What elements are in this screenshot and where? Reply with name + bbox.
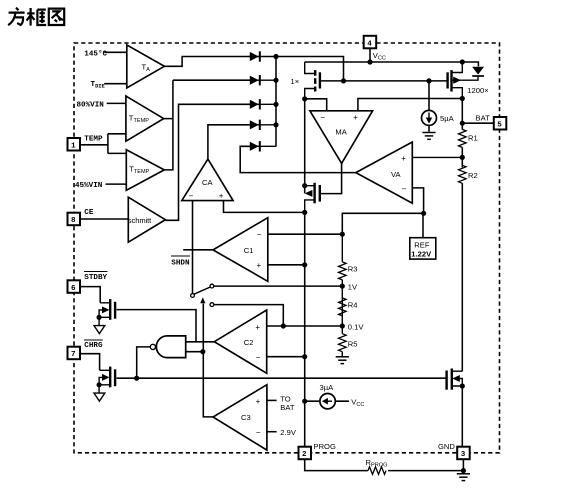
wire C3 + stub [267, 399, 277, 401]
comparator C1 [213, 218, 268, 282]
wire pin6 to M4 [80, 287, 100, 303]
wire MA+ to 1200x source [358, 99, 462, 111]
wire pin2 to RPROG [305, 460, 368, 471]
wire diode bus [276, 57, 344, 147]
ground at pin3 [457, 474, 470, 481]
schmitt trigger [128, 197, 166, 242]
svg-text:R2: R2 [468, 171, 478, 180]
wire CA- to switch [192, 201, 194, 294]
wire VA- to REF [342, 188, 423, 238]
resistor R2 [459, 165, 478, 183]
resistor R4 [339, 298, 358, 316]
svg-text:GND: GND [438, 442, 455, 451]
amplifier TTEMP1 [126, 96, 164, 141]
svg-text:−: − [257, 230, 262, 239]
resistor RPROG [366, 458, 388, 474]
transistor M3 (big NMOS) [447, 369, 463, 390]
diode D1 [249, 51, 276, 61]
svg-text:C3: C3 [241, 413, 251, 422]
wire C2 output to M4 gate [117, 310, 197, 342]
transistor Q1 1x [291, 62, 320, 99]
svg-text:5: 5 [497, 122, 502, 130]
wire switch upper contact to 1V tap [214, 285, 342, 287]
wire MA- from 1x source [305, 99, 327, 111]
svg-text:REF: REF [414, 240, 430, 249]
svg-text:1V: 1V [348, 282, 358, 291]
title 方框图 (drawn strokes) [8, 8, 64, 26]
svg-text:2.9V: 2.9V [280, 428, 297, 437]
wire NAND output to gate line [137, 347, 151, 378]
wire C1- to divider top [268, 233, 343, 235]
wire TA input TDIE [104, 83, 127, 85]
wire 3uA to PROG and VCC [305, 400, 349, 402]
NAND gate U1 [150, 336, 185, 358]
svg-text:CHRG: CHRG [84, 342, 103, 350]
wire VA output to D5 [240, 146, 356, 172]
transistor M5 (CHRG) [99, 367, 115, 393]
wire MA output to M2 gate [320, 163, 342, 193]
wire C3 - stub [267, 431, 277, 433]
label SHDN [171, 256, 190, 267]
svg-text:5µA: 5µA [440, 114, 455, 123]
svg-text:+: + [353, 113, 358, 122]
amplifier TA [127, 45, 165, 88]
comparator C3 [213, 385, 267, 450]
svg-text:4: 4 [367, 40, 372, 48]
divider connecting stubs [341, 234, 343, 356]
wire TTEMP2 input 45%VIN [106, 183, 127, 185]
svg-text:+: + [255, 323, 260, 332]
pin 7 [68, 340, 103, 359]
svg-text:+: + [257, 261, 262, 270]
svg-text:R1: R1 [468, 134, 478, 143]
svg-text:BAT: BAT [280, 403, 295, 412]
wire NAND lower input [186, 351, 203, 353]
svg-text:CE: CE [84, 209, 94, 217]
transistor M4 (STDBY) [99, 299, 115, 325]
svg-text:1.22V: 1.22V [411, 250, 432, 259]
resistor R3 [339, 262, 358, 280]
transistor Q2 1200x [448, 62, 489, 99]
wire M3 source to pin3 [461, 386, 463, 446]
diode D2 [249, 75, 276, 85]
wire M2 drain vertical [304, 99, 306, 194]
pin 6 [68, 272, 108, 293]
svg-text:STDBY: STDBY [84, 274, 107, 282]
transistor M2 [305, 183, 320, 213]
wire schmitt output to D3 [165, 104, 249, 220]
svg-text:−: − [402, 184, 407, 193]
dashed border [74, 43, 500, 453]
svg-text:7: 7 [71, 351, 76, 359]
ground under M5 [94, 393, 105, 401]
wire C2 output to NAND [186, 341, 215, 343]
svg-text:−: − [189, 192, 194, 201]
wire TTEMP1 input lower [108, 133, 126, 135]
pin 5 [476, 113, 507, 129]
wire BAT line [462, 122, 494, 124]
svg-text:+: + [401, 154, 406, 163]
wire TTEMP1 input 80%VIN [107, 102, 126, 104]
switch S1 [191, 284, 214, 306]
wire TA output to D1 [164, 57, 249, 67]
REF 1.22V box [410, 238, 436, 259]
wire pin1 TEMP [80, 134, 108, 154]
comparator C2 [214, 310, 266, 373]
svg-text:−: − [256, 428, 261, 437]
svg-text:C1: C1 [244, 246, 254, 255]
current source 3uA [320, 383, 365, 409]
svg-text:3: 3 [461, 451, 466, 459]
pin 1 [68, 136, 103, 151]
pin 3 [438, 442, 470, 459]
wire pin7 to M5 [80, 354, 100, 371]
VA+ wire to R1R2 tap [412, 156, 462, 158]
op-amp MA [310, 111, 373, 164]
wire switch lower contact to 0.1V tap [214, 305, 342, 326]
svg-text:TEMP: TEMP [84, 136, 103, 144]
diode D5 [249, 141, 276, 151]
wire 5uA tap [428, 81, 430, 132]
amplifier TTEMP2 [126, 150, 164, 191]
svg-text:145°C: 145°C [84, 49, 107, 58]
wire gate line [320, 80, 448, 82]
svg-text:CA: CA [202, 178, 213, 187]
ground under 5uA [422, 133, 435, 140]
svg-text:R3: R3 [348, 264, 358, 273]
current source 5uA [422, 110, 455, 125]
wire TA input 145C [104, 51, 127, 53]
wire CA+ to PROG [224, 201, 305, 213]
wire TTEMP outputs to D2 [164, 80, 250, 170]
diode body Q2 (to BAT rail) [472, 67, 484, 76]
wire C1+ to PROG [268, 264, 305, 266]
diode D3 [249, 99, 276, 109]
svg-text:C2: C2 [244, 338, 254, 347]
wire pin8 CE [80, 218, 128, 220]
svg-text:+: + [219, 192, 224, 201]
svg-text:+: + [256, 397, 261, 406]
svg-text:1×: 1× [291, 77, 300, 86]
svg-text:−: − [256, 353, 261, 362]
pin 4 [364, 36, 386, 62]
svg-text:SHDN: SHDN [171, 259, 190, 267]
wire C1 output SHDN [183, 249, 213, 251]
pin 2 [299, 442, 336, 459]
svg-text:BAT: BAT [476, 113, 491, 122]
svg-text:R5: R5 [348, 340, 358, 349]
svg-text:MA: MA [335, 128, 347, 137]
svg-text:1200×: 1200× [467, 86, 488, 95]
wire VCC rail [305, 48, 479, 67]
svg-text:3µA: 3µA [320, 383, 335, 392]
pin 8 [68, 209, 94, 225]
svg-text:−: − [320, 113, 325, 122]
diode D4 [249, 120, 276, 130]
op-amp VA [356, 142, 413, 203]
svg-text:0.1V: 0.1V [348, 323, 365, 332]
svg-text:VA: VA [391, 170, 402, 179]
svg-text:schmitt: schmitt [128, 216, 152, 225]
wire C3 output vertical [203, 304, 213, 417]
resistor R1 [459, 129, 478, 147]
svg-text:45%VIN: 45%VIN [75, 182, 103, 190]
wire TTEMP2 input upper [108, 152, 126, 154]
ground under M4 [94, 326, 105, 334]
svg-text:1: 1 [71, 143, 76, 151]
op-amp CA [182, 159, 233, 201]
wire PROG vertical [304, 212, 306, 446]
wire C2- to PROG [267, 356, 305, 358]
wire long gate line to M3 [117, 377, 447, 379]
svg-text:6: 6 [71, 285, 76, 293]
ground under R5 [336, 357, 349, 364]
resistor R5 [339, 334, 358, 352]
svg-text:80%VIN: 80%VIN [77, 101, 105, 109]
svg-text:R4: R4 [348, 301, 358, 310]
svg-text:2: 2 [302, 451, 307, 459]
wire BAT vertical R1 R2 chain [461, 99, 463, 372]
wire RPROG to pin3 ground [388, 460, 463, 473]
svg-text:PROG: PROG [314, 442, 336, 451]
wire CA output to D4 [208, 125, 250, 159]
svg-text:8: 8 [71, 217, 76, 225]
